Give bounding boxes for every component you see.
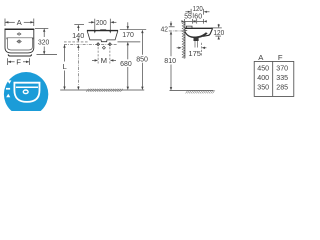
dimension 850 bbox=[141, 30, 143, 33]
extension line rim level bbox=[120, 29, 146, 31]
svg-text:120: 120 bbox=[213, 28, 224, 37]
fixing level dashed line (notch bottom) bbox=[64, 41, 89, 43]
svg-text:350: 350 bbox=[257, 83, 269, 92]
front view: overflow hole (diamond with dot) bbox=[17, 40, 21, 43]
svg-text:M: M bbox=[101, 56, 107, 65]
svg-text:60: 60 bbox=[194, 12, 202, 21]
side view: floor line bbox=[170, 90, 214, 92]
front view: basin outer outline bbox=[5, 30, 34, 53]
logo: blue circle bbox=[4, 72, 48, 116]
logo: basin icon outline bbox=[14, 83, 39, 102]
side view: bowl section bbox=[184, 31, 208, 39]
svg-text:L: L bbox=[63, 62, 68, 71]
svg-text:42: 42 bbox=[161, 24, 168, 33]
dimension 680 bbox=[127, 45, 129, 59]
rear view: tap position leaders bbox=[94, 19, 96, 31]
floor hatching bbox=[86, 89, 123, 92]
side view: dimension 120 right bbox=[211, 27, 222, 29]
side view: dimension 175 bbox=[177, 47, 179, 49]
svg-text:400: 400 bbox=[257, 73, 269, 82]
svg-text:285: 285 bbox=[276, 83, 288, 92]
table: border bbox=[254, 62, 294, 97]
front view: faucet hole (diamond) bbox=[17, 33, 21, 35]
fixing hole right bbox=[108, 43, 111, 46]
rear view: dimension 140 bbox=[74, 24, 84, 26]
front view: dimension 320 bbox=[35, 27, 48, 29]
side view: wall line bbox=[184, 22, 186, 59]
svg-text:810: 810 bbox=[164, 56, 176, 65]
logo: basin icon rim line bbox=[16, 86, 38, 88]
svg-text:F: F bbox=[16, 57, 21, 66]
side view: floor hatching bbox=[186, 90, 215, 93]
svg-text:200: 200 bbox=[96, 18, 107, 27]
side view: drain fitting bbox=[194, 38, 198, 41]
svg-text:335: 335 bbox=[276, 73, 288, 82]
rear view: basin profile (trapezoid with notch) bbox=[87, 31, 118, 42]
side view: 55/60 ticks and dim lines bbox=[185, 19, 204, 24]
svg-text:450: 450 bbox=[257, 63, 269, 72]
svg-text:680: 680 bbox=[120, 59, 132, 68]
logo: basin icon overflow oval bbox=[23, 90, 28, 94]
svg-text:850: 850 bbox=[136, 54, 148, 63]
dimension L bbox=[63, 44, 65, 47]
svg-text:170: 170 bbox=[122, 30, 134, 39]
dimension M extension dashes bbox=[97, 47, 99, 64]
dimension M bbox=[92, 59, 95, 61]
front view: dimension A bbox=[5, 19, 34, 27]
fixing hole left bbox=[97, 43, 100, 46]
svg-text:175: 175 bbox=[188, 49, 201, 58]
side view: basin rim bbox=[185, 27, 213, 29]
wall fixing height dimension line bbox=[77, 45, 79, 48]
svg-text:55: 55 bbox=[184, 12, 192, 21]
svg-text:F: F bbox=[278, 53, 283, 62]
svg-text:320: 320 bbox=[38, 37, 49, 46]
side view: front edge bbox=[203, 28, 213, 36]
svg-text:A: A bbox=[17, 18, 23, 27]
front view: inner bowl outline bbox=[7, 38, 32, 50]
floor line (installation view) bbox=[60, 89, 144, 91]
extension line notch level right bbox=[118, 41, 141, 43]
dimension 170 bbox=[127, 22, 129, 26]
side view: dimension 810 bbox=[170, 34, 172, 56]
side view: outlet dashed centerline bbox=[201, 43, 203, 57]
side view: wall hatching (zigzag) bbox=[182, 22, 184, 58]
front view: dimension F bbox=[8, 58, 30, 65]
front view: basin top edge (bold) bbox=[5, 28, 35, 30]
fixing holes dashed centerline bbox=[64, 43, 117, 45]
drain hole bbox=[102, 46, 105, 49]
side view: dimension 42 bbox=[170, 21, 172, 23]
svg-text:370: 370 bbox=[276, 63, 288, 72]
logo: left glyphs bbox=[7, 80, 11, 84]
side view: tap boss bbox=[186, 26, 192, 28]
table: column divider bbox=[272, 62, 274, 97]
svg-text:A: A bbox=[258, 53, 264, 62]
front view: bottom bold edge bbox=[8, 54, 31, 56]
front view: rim line bbox=[7, 38, 33, 40]
